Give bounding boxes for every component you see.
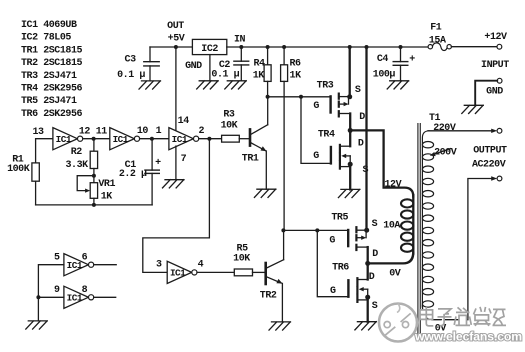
op-amp U1 inverter IC1a — [53, 128, 83, 150]
watermark chinese text — [420, 307, 506, 326]
svg-text:S: S — [372, 219, 378, 230]
transistor TR5 P-MOSFET — [348, 227, 368, 250]
svg-text:10: 10 — [137, 126, 149, 137]
ground under TR1 — [254, 189, 276, 197]
svg-text:12V: 12V — [384, 179, 401, 190]
svg-text:2: 2 — [199, 126, 205, 137]
wire osc bottom — [36, 204, 153, 206]
svg-text:100K: 100K — [7, 164, 30, 175]
svg-text:11: 11 — [96, 126, 108, 137]
watermark logo circle — [379, 304, 417, 342]
transistor TR6 N-MOSFET — [348, 278, 367, 302]
node TR3 TR4 drains — [348, 128, 353, 133]
terminal input GND — [497, 78, 502, 83]
transistor TR3 P-MOSFET — [331, 94, 351, 117]
wire primary top from drains — [350, 130, 413, 196]
svg-text:15A: 15A — [429, 35, 446, 46]
op-amp U3 inverter IC1c — [169, 128, 199, 150]
svg-text:R3: R3 — [223, 110, 235, 121]
wire primary bottom to drains — [368, 253, 414, 264]
label R6 1K — [289, 59, 301, 82]
ground bottom left — [26, 321, 48, 329]
svg-text:VR1: VR1 — [98, 179, 115, 190]
wire inv6 out stub — [94, 296, 116, 298]
svg-text:D: D — [358, 138, 364, 149]
ground under pin7 — [163, 180, 185, 188]
svg-text:13: 13 — [32, 127, 44, 138]
svg-text:C3: C3 — [125, 54, 137, 65]
node R2 VR1 — [92, 174, 96, 178]
svg-text:D: D — [369, 272, 375, 283]
svg-text:220V: 220V — [433, 123, 456, 134]
wire pin2 down to inv4 — [143, 139, 210, 273]
ground under TR2 — [269, 322, 291, 330]
ground under C2 — [225, 81, 247, 89]
svg-text:+12V: +12V — [484, 32, 507, 43]
svg-text:IC2 78L05: IC2 78L05 — [21, 33, 71, 44]
wire TR5 drain down — [367, 247, 369, 263]
svg-text:10A: 10A — [383, 220, 400, 231]
svg-text:G: G — [330, 286, 336, 297]
wire TR3 source to rail — [349, 47, 351, 97]
svg-text:0.1 μ: 0.1 μ — [211, 69, 239, 80]
node TR3 source — [347, 94, 352, 99]
svg-text:10K: 10K — [221, 121, 238, 132]
resistor R3 — [222, 135, 249, 142]
wire pin7 to gnd — [175, 146, 177, 180]
wire +12V rail IC2 to fuse — [227, 46, 428, 48]
ground under C4 — [387, 81, 409, 89]
label R3 10K — [221, 110, 238, 132]
label R2 3.3K — [65, 147, 88, 171]
transistor Q2 TR2 — [266, 230, 284, 322]
wire TR5 source to rail — [365, 47, 367, 230]
svg-text:TR2: TR2 — [260, 290, 277, 301]
svg-text:TR5: TR5 — [331, 213, 348, 224]
label R4 1K — [253, 59, 265, 82]
svg-text:G: G — [313, 151, 319, 162]
svg-text:TR3: TR3 — [317, 81, 334, 92]
svg-text:OUTPUT: OUTPUT — [473, 146, 507, 157]
svg-text:IC1: IC1 — [67, 293, 83, 304]
node rail TR5 — [365, 45, 369, 49]
label C3 0.1u — [117, 54, 145, 81]
wire TR4 source to gnd — [349, 164, 351, 189]
fuse F1 — [428, 43, 451, 51]
capacitor C1 — [145, 139, 159, 205]
svg-text:IC1: IC1 — [172, 134, 188, 145]
wire inv3 out — [199, 138, 222, 140]
wire inv4 out to R5 — [197, 271, 234, 273]
svg-text:IC1 4069UB: IC1 4069UB — [21, 20, 77, 31]
node +5V junction — [174, 45, 178, 49]
svg-text:IC1: IC1 — [170, 268, 186, 279]
label F1 15A — [429, 23, 446, 47]
svg-text:OUT: OUT — [167, 21, 184, 32]
node IN — [239, 45, 243, 49]
node gate branch — [299, 95, 303, 99]
svg-text:D: D — [372, 249, 378, 260]
svg-text:R2: R2 — [71, 147, 83, 158]
op-amp U5 inverter IC1e — [64, 254, 94, 276]
svg-text:TR2 2SC1815: TR2 2SC1815 — [21, 58, 83, 69]
transformer T1 core — [418, 124, 420, 337]
svg-text:TR4 2SK2956: TR4 2SK2956 — [21, 84, 83, 95]
svg-text:5: 5 — [54, 252, 60, 263]
capacitor C3 — [144, 47, 159, 81]
wire inv2 out to inv3 — [140, 138, 169, 140]
svg-text:1K: 1K — [101, 192, 113, 203]
node gate branch 2 — [315, 228, 319, 232]
node TR4 source — [348, 162, 353, 167]
op-amp U4 inverter IC1d — [167, 261, 197, 283]
svg-text:3: 3 — [156, 260, 162, 271]
terminal +12V — [497, 44, 502, 49]
svg-text:10K: 10K — [233, 253, 250, 264]
svg-text:12: 12 — [79, 126, 91, 137]
arrow 220V output — [491, 129, 497, 133]
wire +5V down to pin14 — [175, 47, 177, 132]
terminal 220V — [497, 128, 502, 133]
svg-text:S: S — [372, 301, 378, 312]
ground under C3 — [139, 81, 161, 89]
svg-text:G: G — [313, 101, 319, 112]
resistor R5 — [234, 269, 264, 276]
svg-text:GND: GND — [486, 87, 503, 98]
resistor R1 — [32, 163, 39, 205]
svg-text:IC2: IC2 — [201, 44, 218, 55]
svg-text:F1: F1 — [430, 23, 442, 34]
svg-text:IC1: IC1 — [56, 134, 72, 145]
svg-text:+5V: +5V — [168, 34, 185, 45]
label R1 100K — [7, 155, 30, 176]
wire TR6 drain up — [367, 263, 369, 279]
label C2 0.1u — [211, 60, 239, 80]
svg-text:14: 14 — [178, 116, 190, 127]
svg-text:TR5 2SJ471: TR5 2SJ471 — [21, 96, 77, 107]
svg-text:+: + — [409, 54, 415, 65]
node 1 — [150, 137, 154, 141]
node 12 — [92, 137, 96, 141]
wire inv1 out to inv2 — [83, 138, 110, 140]
ground input — [462, 105, 484, 113]
svg-text:C4: C4 — [377, 54, 389, 65]
node gate TR3 R4 — [266, 95, 270, 99]
transformer secondary winding — [422, 131, 433, 307]
node gate TR5 R6 — [281, 228, 285, 232]
node C4 top — [399, 45, 403, 49]
svg-text:0.1 μ: 0.1 μ — [117, 70, 145, 81]
svg-text:2.2 μ: 2.2 μ — [119, 169, 147, 180]
parts list text — [21, 20, 83, 120]
wire TR6 source to gnd — [367, 297, 369, 322]
svg-text:IC1: IC1 — [67, 260, 83, 271]
svg-text:1K: 1K — [253, 70, 265, 81]
resistor R4 — [264, 47, 271, 97]
svg-text:S: S — [355, 85, 361, 96]
wire TR3 TR4 gate net — [268, 97, 330, 164]
label C1 2.2u + — [119, 158, 161, 180]
node TR5 TR6 drains — [365, 261, 370, 266]
svg-text:TR4: TR4 — [318, 129, 335, 140]
wire TR3 drain down — [349, 114, 351, 131]
ground under TR4 — [338, 189, 360, 197]
wire TR5 TR6 gate net — [283, 230, 347, 296]
resistor R6 — [281, 47, 288, 230]
node R4 top — [266, 45, 270, 49]
transistor Q1 TR1 — [250, 97, 268, 189]
svg-text:AC220V: AC220V — [472, 159, 506, 170]
node inv inputs — [36, 295, 40, 299]
svg-text:9: 9 — [54, 285, 60, 296]
svg-text:IC1: IC1 — [113, 134, 129, 145]
node 2 — [207, 137, 211, 141]
label R5 10K — [233, 244, 250, 265]
svg-text:0V: 0V — [389, 268, 401, 279]
svg-text:R4: R4 — [253, 59, 265, 70]
svg-text:G: G — [329, 235, 335, 246]
op-amp U6 inverter IC1f — [64, 286, 94, 308]
resistor R2 — [90, 139, 97, 176]
arrow AC output low — [491, 176, 497, 180]
svg-text:INPUT: INPUT — [481, 60, 509, 71]
node TR5 source — [364, 228, 369, 233]
svg-text:3.3K: 3.3K — [65, 160, 88, 171]
svg-text:TR6: TR6 — [332, 262, 349, 273]
svg-text:GND: GND — [185, 61, 202, 72]
terminal AC output low — [497, 176, 502, 181]
svg-text:TR3 2SJ471: TR3 2SJ471 — [21, 71, 77, 82]
wire TR4 drain up — [349, 130, 351, 146]
node rail TR3 — [348, 45, 352, 49]
svg-text:R6: R6 — [289, 59, 301, 70]
svg-text:TR1 2SC1815: TR1 2SC1815 — [21, 45, 83, 56]
wire secondary bottom to output — [422, 179, 492, 320]
capacitor C2 — [234, 47, 249, 81]
label VR1 1K — [98, 179, 115, 203]
svg-text:+: + — [155, 158, 161, 169]
svg-text:www.elecfans.com: www.elecfans.com — [414, 330, 522, 344]
arrow 200V tap — [430, 149, 451, 157]
wire IC2 gnd lead — [209, 55, 211, 81]
wire fuse to +12V terminal — [451, 46, 497, 48]
wire inv5 inv6 inputs to gnd — [38, 265, 64, 321]
svg-text:4: 4 — [198, 260, 204, 271]
node VR1 bottom — [92, 203, 96, 207]
ground under TR6 — [355, 322, 377, 330]
potentiometer VR1 — [77, 176, 97, 205]
wire input gnd — [475, 81, 497, 106]
svg-text:1K: 1K — [290, 70, 302, 81]
svg-text:100μ: 100μ — [373, 69, 396, 80]
capacitor C4 — [393, 47, 408, 81]
node TR6 source — [365, 295, 370, 300]
wire inv1 input — [36, 139, 53, 163]
transformer primary winding — [401, 195, 413, 254]
svg-text:TR1: TR1 — [242, 153, 259, 164]
label OUT +5V — [167, 21, 185, 44]
node R6 top — [282, 45, 286, 49]
label OUTPUT AC220V — [472, 146, 507, 171]
ground under IC2 — [197, 81, 219, 89]
svg-text:7: 7 — [181, 154, 187, 165]
svg-text:1: 1 — [156, 126, 162, 137]
label C4 + 100u — [373, 54, 415, 81]
wire inv5 out stub — [94, 264, 117, 266]
op-amp U2 inverter IC1b — [110, 128, 140, 150]
wire +5V rail left of IC2 — [150, 46, 192, 48]
svg-text:D: D — [359, 112, 365, 123]
svg-text:TR6 2SK2956: TR6 2SK2956 — [21, 109, 83, 120]
regulator IC2 — [192, 39, 226, 55]
wire 220V output — [428, 130, 493, 132]
svg-text:IN: IN — [234, 35, 246, 46]
transistor TR4 N-MOSFET — [331, 145, 350, 169]
